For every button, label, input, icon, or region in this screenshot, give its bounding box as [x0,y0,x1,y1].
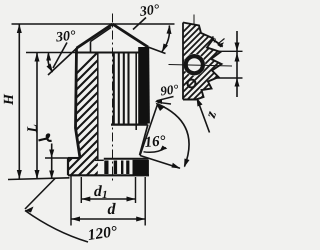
H arrow bottom [17,170,22,179]
right 30 arc [162,26,170,52]
body left outer wall [76,48,81,158]
d1 extension line left [80,177,82,203]
16 lower arrow [172,163,181,169]
16 small arc arrow [160,146,167,151]
left 30 arc [48,53,53,72]
d1 extension line right [135,177,137,203]
16 small arc [144,148,167,153]
knurl line 3 [123,53,125,124]
section hatching lines [0,10,316,190]
thread bar 4 [126,161,129,175]
90 wedge line 1 [157,97,174,101]
left 30 arc arrow bottom [47,64,54,73]
d1 arrow left [81,197,90,202]
16 big arc arrow [184,159,190,168]
right 30 arc arrow bottom [162,44,168,53]
knurl line 5 [135,53,137,131]
flange top right [104,158,149,160]
d arrow left [71,217,80,222]
hole bottom edge [95,159,104,161]
label z [208,111,216,119]
16 deg line steep [140,104,158,156]
hole wall [97,53,99,160]
cone left outer surface [77,24,113,48]
hatched flange section [68,158,98,175]
hatched cone wall section [76,25,112,53]
body right outer wall [147,47,150,124]
16 deg line lower [140,156,180,169]
120 arc arrow left [25,207,34,213]
dimension l line [51,144,53,180]
L arrow bottom [35,170,40,179]
f dimension vertical line [236,31,238,97]
dimension H line [18,24,20,179]
body top edge left extension [26,52,77,54]
label f [210,36,225,47]
detail left edge [182,23,184,100]
inner cone vertical [90,42,92,53]
detail hatch [100,5,320,115]
label 120 deg [87,226,117,240]
detail view vertical tick [193,15,195,27]
16 deg steep arrow [156,103,166,112]
taper right edge (16 deg) [140,125,148,156]
120 deg arc [25,211,88,243]
d1 arrow right [127,197,136,202]
label l (script ell, rotated) [39,134,52,141]
right 30 deg label [139,4,160,16]
detail small circle [188,80,196,88]
z leader arrow [197,98,203,107]
cone surface extension (left 30 deg) [48,47,78,75]
thread bar 1 [104,161,108,175]
dimension d1 line [81,198,135,200]
knurl shade band (right silhouette) [138,47,149,124]
d extension line left [70,176,72,226]
label 16 deg [144,135,165,147]
dimension d line [71,218,145,220]
thread bar 3 [121,161,123,175]
90 wedge line 2 [158,102,172,104]
L arrow top [35,53,40,62]
top extension line through apex [12,23,175,25]
inner cone hole top [91,28,112,42]
cone right outer surface [113,24,149,47]
hatched body wall section [76,53,98,159]
dimension L line [36,53,38,180]
label H [4,94,13,105]
cone surface extension (right 30 deg) [148,47,166,54]
label d1 [94,185,102,196]
left 30 deg label [55,30,75,41]
detail outline stroke [183,23,222,100]
H arrow top [17,24,22,33]
f arrow down [235,43,240,52]
knurl line 4 [127,53,129,124]
thread bar 2 [114,161,117,175]
detail toothed outline [183,23,222,100]
z leader [197,99,210,133]
l arrow mid [49,150,54,159]
bottom extension line [8,178,70,180]
pitch arrow down [235,78,240,87]
label L [27,125,36,133]
flange bottom [68,174,149,176]
120 deg construction line [25,179,55,210]
flange left edge [67,158,69,175]
knurl end edge [111,123,148,125]
l top arrow at shoulder line [46,53,50,61]
right 30 arc arrow top [167,25,172,34]
centerline of main view [112,14,114,182]
left 30 leader [53,43,67,69]
f extension line lower [215,77,243,79]
label 90 deg [160,84,179,95]
d extension line right [144,177,146,226]
pitch arrow up [235,53,240,62]
detail view horizontal centerline [169,65,233,67]
body top edge [77,51,149,53]
knurl line 2 [118,53,120,124]
f leader arrow [219,39,225,44]
detail hole [186,56,203,73]
label d [108,203,116,214]
90 wedge arrow [155,99,162,104]
d arrow right [136,217,145,222]
knurl line 1 [113,53,115,124]
left 30 arc arrow top [46,53,51,61]
right 30 leader [133,18,146,30]
l arrow bottom [49,171,54,180]
f extension line upper [217,50,243,52]
flange right shade block [133,160,149,175]
flange top left [68,157,80,159]
flange top extension left [45,157,68,159]
16 big arc [158,104,189,167]
